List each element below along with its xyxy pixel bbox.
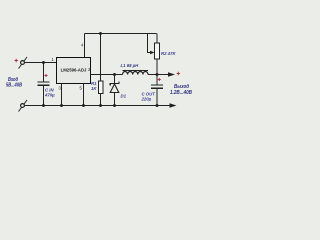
wire C IN top lead [43, 63, 45, 82]
node C OUT gnd [156, 104, 159, 107]
input terminal X1 plus [19, 57, 28, 69]
node diode top [113, 73, 116, 76]
node diode gnd [113, 104, 116, 107]
R2 wiper arrowhead [150, 51, 155, 54]
node R1 gnd [99, 104, 102, 107]
wire C OUT top lead [156, 75, 158, 85]
input terminal X2 minus [19, 100, 28, 112]
resistor R1 [98, 81, 103, 94]
capacitor C IN [38, 82, 50, 85]
wire C IN bottom lead [43, 85, 45, 105]
node pin5 gnd [82, 104, 85, 107]
node C IN bottom [42, 104, 45, 107]
wire R2 top corner [156, 34, 158, 44]
wire R2 bottom [156, 59, 158, 75]
wire feedback top [85, 33, 157, 35]
node C IN top [42, 61, 45, 64]
red plus C OUT [158, 78, 161, 81]
svg-text:1K: 1K [91, 86, 97, 91]
wire feedback to R1 [100, 34, 102, 82]
wire output arrow line [157, 74, 170, 76]
svg-text:470µ: 470µ [44, 93, 55, 98]
wire C OUT bottom lead [156, 88, 158, 105]
red plus C IN [45, 74, 48, 77]
svg-text:220µ: 220µ [141, 96, 152, 101]
svg-text:D1: D1 [121, 94, 127, 99]
output minus arrow [170, 103, 177, 107]
potentiometer R2 [155, 43, 160, 59]
node output [156, 73, 159, 76]
wire pin4 feedback up [84, 34, 86, 58]
wire pin3 [61, 84, 63, 106]
output plus arrow [168, 72, 175, 76]
wire inductor to out node [148, 74, 157, 76]
red plus input [15, 59, 19, 63]
svg-text:Выход: Выход [174, 84, 189, 90]
wire pin2 out [91, 74, 123, 76]
node pin3 gnd [60, 104, 63, 107]
wire R1 bottom [100, 94, 102, 106]
wire R2 wiper [148, 34, 151, 53]
svg-text:5В...40В: 5В...40В [6, 83, 22, 89]
inductor L1 [123, 71, 149, 75]
svg-text:1.2В...40В: 1.2В...40В [170, 90, 192, 96]
wire input top [25, 62, 57, 64]
svg-text:LM2596-ADJ: LM2596-ADJ [61, 67, 87, 72]
node feedback R1 [99, 32, 102, 35]
diode D1 [110, 75, 119, 106]
op-amp U1 LM2596 box [57, 58, 91, 84]
wire pin5 [83, 84, 85, 106]
capacitor C OUT [151, 85, 163, 88]
ground rail [25, 105, 171, 107]
svg-text:R2 47K: R2 47K [161, 51, 176, 56]
red plus output [177, 72, 180, 75]
svg-text:L1 68 µH: L1 68 µH [121, 63, 140, 68]
